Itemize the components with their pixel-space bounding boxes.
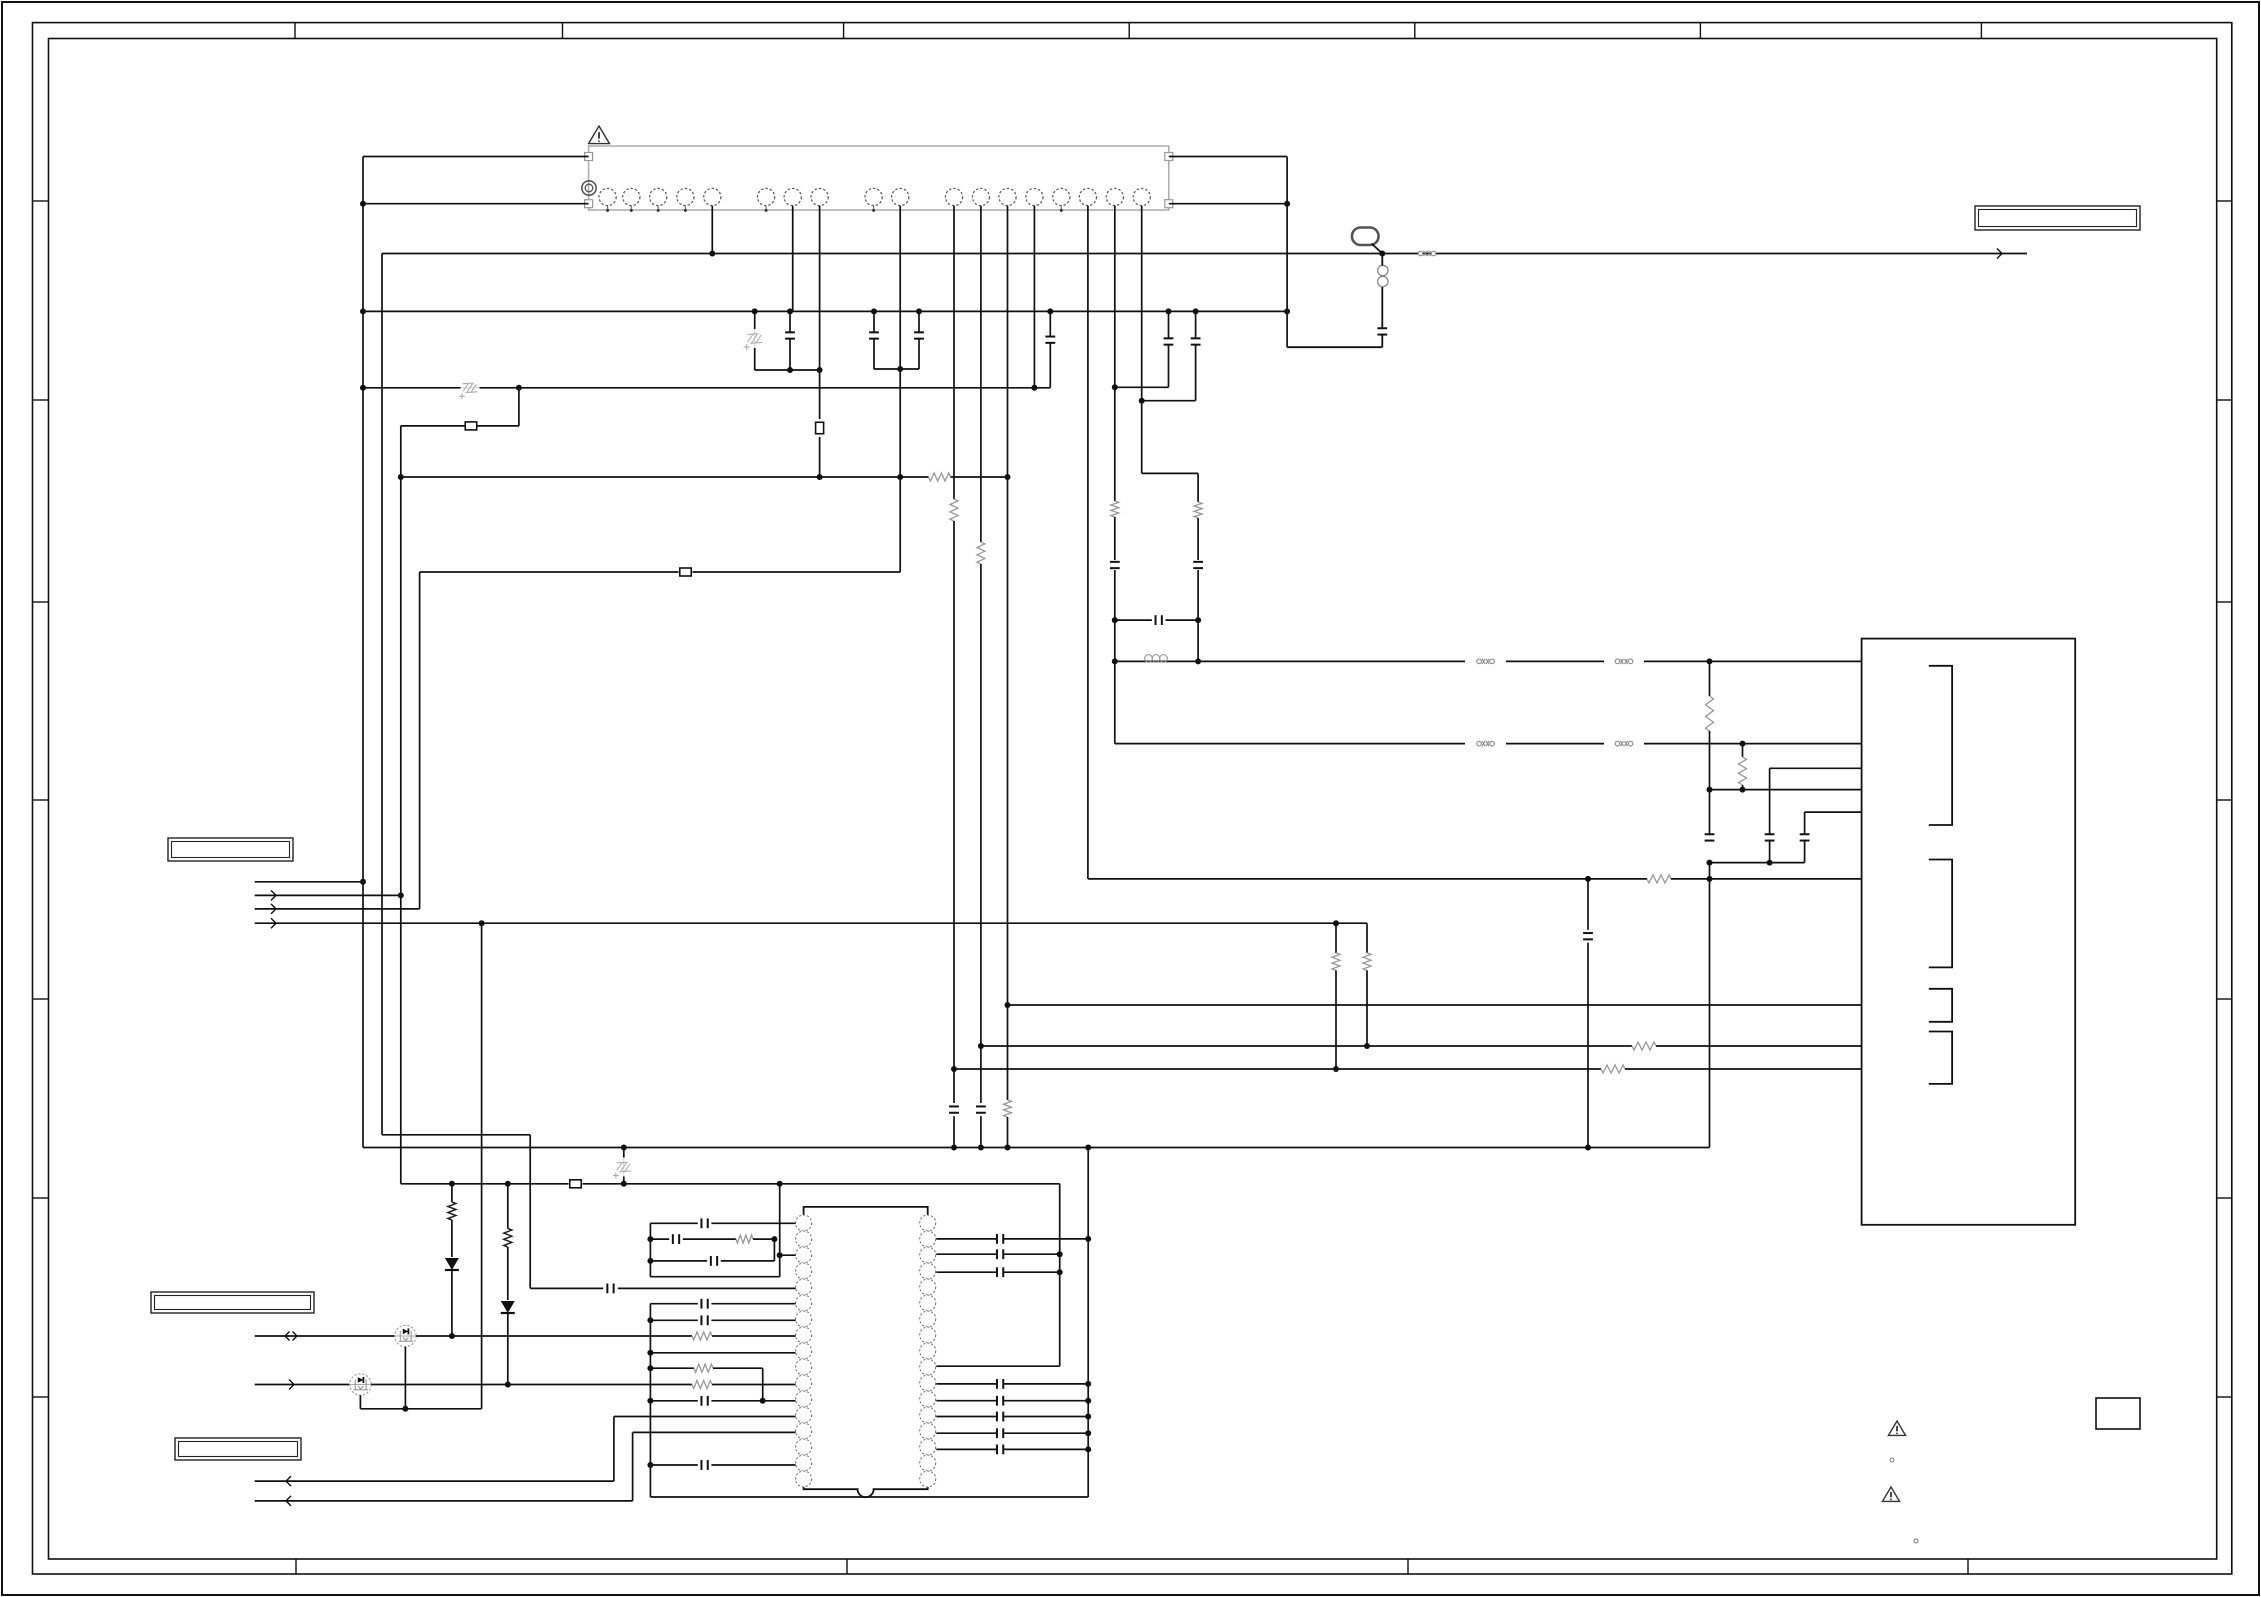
junction x650/pin7L row	[647, 1317, 653, 1323]
arrow W5	[286, 1476, 291, 1486]
resistor R10	[1332, 953, 1340, 971]
IC U1 pin 12 left	[796, 1391, 812, 1407]
junction right trunk/pad	[1284, 201, 1290, 207]
wire pin2R row b	[1004, 1238, 1088, 1240]
wire pin9L row	[650, 1352, 795, 1354]
wire C5 top lead	[1168, 311, 1170, 338]
wire M1 mid	[416, 1335, 692, 1337]
wire x774 vertical	[773, 1239, 775, 1261]
wire x1198 vertical a	[1197, 473, 1199, 502]
junction riser/pin15R	[1085, 1446, 1091, 1452]
capacitor C27	[997, 1267, 1003, 1277]
wire net W4	[255, 922, 1367, 924]
ferrite bead FB2a	[1477, 659, 1495, 664]
junction W-ANT1/x1198	[1195, 658, 1201, 664]
IC U1 pin 3 left	[796, 1247, 812, 1263]
junction busC/pin13 trunk	[1005, 474, 1011, 480]
wire W-block5	[1805, 811, 1862, 813]
wire R14 top lead	[451, 1184, 453, 1202]
wire pin13R row b	[1004, 1416, 1088, 1418]
junction busA right	[1284, 308, 1290, 314]
junction W6/C15 chain	[1585, 876, 1591, 882]
wire net5 to C23 left lead	[530, 1287, 603, 1289]
capacitor C23 on IC pin5 line	[607, 1284, 613, 1294]
IC U1 pin 12 right	[920, 1391, 936, 1407]
capacitor C20	[701, 1315, 707, 1325]
wire CN1 bottom-left pad to trunk	[363, 203, 589, 205]
wire R8 top lead	[1742, 744, 1744, 757]
wire ground riser x1088	[1087, 1148, 1089, 1498]
wire pin1L row a	[650, 1222, 697, 1224]
wire W-ANT1 left	[1115, 660, 1465, 662]
wire D2 to M2	[507, 1314, 509, 1385]
IC U1 pin 16 right	[920, 1455, 936, 1471]
wire long signal line L1	[382, 253, 2027, 255]
IC U1 pin 4 left	[796, 1263, 812, 1279]
module block U2 body	[1862, 639, 2076, 1225]
junction F/R11	[1364, 1043, 1370, 1049]
wire right trunk x1287	[1286, 157, 1288, 348]
wire CN1 top-right pad	[1169, 156, 1287, 158]
wire L1 junction to coil	[1381, 254, 1383, 266]
wire power bus A	[363, 310, 1287, 312]
wire pin4R row a	[936, 1271, 996, 1273]
wire net5 jog horizontal	[382, 1134, 530, 1136]
connector CN1 pin 8	[811, 188, 828, 205]
resistor R6 on x1198	[1194, 502, 1202, 518]
wire D right	[693, 571, 901, 573]
junction riser/pin13R	[1085, 1414, 1091, 1420]
arrow M2	[289, 1380, 294, 1390]
wire pin14L drop	[632, 1432, 634, 1501]
IC U1 pin 7 right	[920, 1311, 936, 1327]
module U2 internal bracket 3	[1929, 989, 1952, 1022]
wire R14-D1	[451, 1220, 453, 1257]
IC U1 pin 8 left	[796, 1327, 812, 1343]
wire coil to C23b	[1381, 287, 1383, 328]
wire pin4R row b	[1004, 1271, 1060, 1273]
junction return/pin8 trunk	[817, 367, 823, 373]
connector CN1 pin 17	[1106, 188, 1123, 205]
junction busA/C2	[871, 308, 877, 314]
connector CN1 pin 15	[1053, 188, 1070, 205]
junction busA/C3	[916, 308, 922, 314]
junction riser/pin14R	[1085, 1430, 1091, 1436]
capacitor C17	[673, 1234, 679, 1244]
junction W4/R10 chain	[1333, 920, 1339, 926]
IC U1 pin 9 right	[920, 1343, 936, 1359]
IC U1 pin 1 left	[796, 1215, 812, 1231]
wire CN1 pin10 drop	[899, 206, 901, 572]
IC U1 pin 11 left	[796, 1375, 812, 1391]
wire C12 bottom	[1769, 841, 1771, 862]
junction x1059/pin3R	[1057, 1251, 1063, 1257]
junction riser/pin12R	[1085, 1398, 1091, 1404]
wire bus I right	[583, 1183, 1060, 1185]
junction x1059/pin4R	[1057, 1269, 1063, 1275]
connector CN1 edge pad	[585, 153, 593, 161]
IC U1 pin 10 right	[920, 1359, 936, 1375]
IC U1 pin 17 left	[796, 1471, 812, 1487]
IC U1 pin 15 right	[920, 1439, 936, 1455]
junction busC/net3	[398, 474, 404, 480]
wire CN1 pin5 drop	[711, 206, 713, 254]
IC U1 pin 9 left	[796, 1343, 812, 1359]
module U2 internal bracket 2	[1929, 860, 1952, 968]
junction riser/pin11R	[1085, 1381, 1091, 1387]
wire G right	[1625, 1068, 1862, 1070]
jumper JP2 on pin8 drop	[816, 422, 824, 434]
diode D2	[501, 1301, 515, 1313]
junction H/pin12 trunk	[978, 1145, 984, 1151]
IC U1 pin 7 left	[796, 1311, 812, 1327]
inductor L2 coil	[1378, 265, 1388, 286]
wire pin14R row b	[1004, 1432, 1088, 1434]
ground symbol G2	[459, 383, 480, 399]
connector CN1 pin 15 stub	[1060, 206, 1062, 211]
junction I/x623	[621, 1181, 627, 1187]
junction H/pin13 trunk	[1005, 1145, 1011, 1151]
resistor R16	[736, 1235, 753, 1243]
wire CN1 pin17 trunk c	[1114, 570, 1116, 744]
wire arrow out W6b	[255, 1500, 633, 1502]
wire CN1 pin12 trunk c	[980, 1116, 982, 1147]
connector CN1 pin 16	[1079, 188, 1096, 205]
wire W-block4	[1710, 789, 1862, 791]
resistor R8	[1739, 757, 1747, 785]
capacitor C4	[1045, 337, 1055, 343]
wire trunk net1 vertical x363	[362, 157, 364, 1148]
wire CN1 pin11 trunk b	[953, 521, 955, 1103]
connector CN1 pin 4 stub	[684, 206, 686, 211]
wire pin3L stub	[780, 1254, 796, 1256]
capacitor C31	[997, 1428, 1003, 1438]
wire W6 right	[1671, 878, 1862, 880]
wire x1709 down to bus H	[1709, 879, 1711, 1148]
junction W-block4/R7	[1707, 787, 1713, 793]
wire R15-D2	[507, 1247, 509, 1300]
junction L1/pin5	[709, 251, 715, 257]
junction W-ANT1/R7 top	[1707, 658, 1713, 664]
wire CN1 pin11 trunk c	[953, 1116, 955, 1147]
wire C4 top lead	[1049, 311, 1051, 336]
wire C24 return horizontal	[1287, 346, 1382, 348]
wire block5 drop	[1804, 812, 1806, 833]
resistor R4 on pin13 trunk	[1004, 1100, 1012, 1117]
junction busA drop1	[752, 308, 758, 314]
junction M2/D2 chain	[505, 1382, 511, 1388]
wire net W3	[255, 908, 420, 910]
connector CN1 pin 1 stub	[607, 206, 609, 211]
capacitor C26	[997, 1249, 1003, 1259]
capacitor C14	[1705, 834, 1715, 840]
junction jog/pin18 trunk	[1139, 398, 1145, 404]
arrow M1 bidirectional	[285, 1332, 297, 1341]
junction busB drop	[516, 385, 522, 391]
wire pin12L row b	[711, 1400, 795, 1402]
IC U1 pin 14 right	[920, 1423, 936, 1439]
wire pin13L drop	[613, 1417, 615, 1482]
arrow W3	[271, 904, 276, 914]
wire pin13L row	[614, 1416, 796, 1418]
wire W-ANT1 right	[1644, 660, 1862, 662]
wire D left	[420, 571, 679, 573]
wire net5 vertical x530	[529, 1135, 531, 1289]
wire W-ANT2 left	[1115, 743, 1465, 745]
wire CN1 pin14 drop	[1033, 206, 1035, 388]
wire bus I down x1059	[1059, 1184, 1061, 1366]
wire C1 top lead	[789, 311, 791, 332]
wire C24 to corner	[1381, 335, 1383, 347]
junction net1/pad wire	[360, 201, 366, 207]
wire gate branch vertical x481	[481, 923, 483, 1409]
wire pin12R row b	[1004, 1400, 1088, 1402]
junction busA/C1	[787, 308, 793, 314]
resistor R13 in G	[1601, 1065, 1625, 1073]
wire pin14L row	[633, 1431, 796, 1433]
wire pin3R row a	[936, 1253, 996, 1255]
wire pin6L row a	[650, 1303, 697, 1305]
wire W-ANT2 mid	[1506, 743, 1604, 745]
junction x779/pin3L stub	[777, 1252, 783, 1258]
ground symbol G3	[613, 1158, 632, 1179]
junction G/R10	[1333, 1066, 1339, 1072]
wire pin13R row a	[936, 1416, 996, 1418]
connector CN1 pin 18	[1133, 188, 1150, 205]
connector CN1 pin 2 stub	[630, 206, 632, 211]
capacitor C19	[701, 1299, 707, 1309]
wire cap C5 jog	[1115, 386, 1169, 388]
wire C2 bottom lead	[873, 339, 875, 369]
resistor R14	[448, 1202, 456, 1220]
wire C1 bottom lead	[789, 339, 791, 370]
capacitor C18	[711, 1256, 717, 1266]
junction x650/pin3L row	[647, 1258, 653, 1264]
ferrite bead FB3	[1615, 741, 1633, 746]
wire CN1 pin12 trunk a	[980, 206, 982, 542]
wire E (pin13 to block)	[1008, 1004, 1862, 1006]
junction busA/C4	[1047, 308, 1053, 314]
wire Q2 source drop	[359, 1395, 361, 1409]
capacitor C32	[997, 1445, 1003, 1455]
wire pin10L row a	[650, 1367, 694, 1369]
wire pin2R row a	[936, 1238, 996, 1240]
connector CN1 pin 12	[972, 188, 989, 205]
wire trunk net5 vertical x382	[381, 254, 383, 1135]
junction jog/pin17 trunk	[1112, 384, 1118, 390]
warning triangle above CN1	[589, 126, 610, 144]
resistor R2 on pin11 trunk	[950, 499, 958, 521]
wire bus C left	[401, 476, 929, 478]
junction H/ground riser	[1085, 1145, 1091, 1151]
wire pin7L row b	[711, 1319, 795, 1321]
junction busA/C6	[1193, 308, 1199, 314]
resistor R11	[1363, 953, 1371, 971]
capacitor C15	[1583, 933, 1593, 939]
off-page arrow L1	[1997, 249, 2002, 259]
wire busB drop vertical	[518, 388, 520, 426]
junction H drop x623	[621, 1145, 627, 1151]
wire W6 (pin16 to block)	[1088, 878, 1647, 880]
wire pin7L row a	[650, 1319, 697, 1321]
wire D1 to M1	[451, 1271, 453, 1336]
connector CN1 pin 2	[623, 188, 640, 205]
junction M1/D1 chain	[449, 1333, 455, 1339]
wire C4 bottom lead	[1049, 343, 1051, 388]
IC U1 pin 4 right	[920, 1263, 936, 1279]
inductor FB1a coil on W-ANT1	[1145, 655, 1168, 663]
junction H/pin11 trunk	[951, 1145, 957, 1151]
wire C2-C3 return	[874, 368, 919, 370]
wire R10 top lead	[1335, 923, 1337, 953]
wire ground bus H	[363, 1147, 1709, 1149]
connector CN1 pin 5	[704, 188, 721, 205]
label box left-2	[151, 1292, 314, 1313]
junction x650/pin12L row	[647, 1398, 653, 1404]
junction W-ANT2/R8 top	[1740, 741, 1746, 747]
wire cluster bottom row	[650, 1276, 779, 1278]
connector CN1 pin 3	[650, 188, 667, 205]
wire H to I drop	[623, 1148, 625, 1184]
wire bus I left	[401, 1183, 569, 1185]
junction G/pin11 trunk	[951, 1066, 957, 1072]
jumper JP1	[465, 422, 477, 430]
junction W2/net3	[398, 892, 404, 898]
capacitor C5	[1164, 338, 1174, 344]
wire CN1 pin17 trunk a	[1114, 206, 1116, 501]
junction return/pin10 trunk	[897, 366, 903, 372]
connector CN1 pin 13	[999, 188, 1016, 205]
junction caps return a	[1707, 860, 1713, 866]
junction x650/pin10L row	[647, 1365, 653, 1371]
wire cluster vertical x650 upper	[649, 1223, 651, 1276]
junction busC/pin8	[817, 474, 823, 480]
wire CN1 pin8 drop lower	[819, 437, 821, 477]
junction crosslink left	[1112, 617, 1118, 623]
capacitor C25	[997, 1234, 1003, 1244]
junction C1 return	[787, 367, 793, 373]
wire crosslink cap right	[1166, 619, 1199, 621]
wire C6 top lead	[1195, 311, 1197, 338]
wire C15 top lead	[1587, 879, 1589, 930]
wire x1198 vertical c	[1197, 570, 1199, 661]
arrow W2	[271, 890, 276, 900]
module U2 internal bracket 1	[1929, 666, 1952, 825]
IC U1 pin 15 left	[796, 1439, 812, 1455]
junction I/R15 chain	[505, 1181, 511, 1187]
capacitor C9 on pin17 trunk	[1110, 562, 1120, 568]
resistor R18 in M1	[692, 1332, 712, 1340]
wire C3 top lead	[918, 311, 920, 332]
IC U1 pin 5 left	[796, 1279, 812, 1295]
junction x650/pin16L row	[647, 1462, 653, 1468]
connector CN1 pin 3 stub	[657, 206, 659, 211]
junction crosslink right	[1195, 617, 1201, 623]
wire R8 bottom	[1742, 785, 1744, 790]
connector CN1 pin 6	[758, 188, 775, 205]
warning triangle note 1	[1888, 1421, 1905, 1435]
arrow W6b	[286, 1496, 291, 1506]
junction busC/pin10	[897, 474, 903, 480]
connector CN1 edge pad	[1165, 200, 1173, 208]
wire R15 top lead	[507, 1184, 509, 1229]
connector CN1 pin 9 stub	[873, 206, 875, 211]
wire pin3L row b	[721, 1260, 775, 1262]
connector CN1 edge pad	[585, 200, 593, 208]
junction busB/net1	[360, 385, 366, 391]
transistor Q2	[350, 1374, 371, 1395]
junction pin2L/x774	[771, 1236, 777, 1242]
capacitor C10 on x1198	[1193, 562, 1203, 568]
wire arrow out W5	[255, 1480, 614, 1482]
wire pin10L row b	[713, 1367, 763, 1369]
capacitor C2	[869, 332, 879, 338]
wire drop to jumper	[401, 425, 519, 427]
connector CN1 body	[589, 146, 1169, 210]
wire bus I to IC pin10 right	[936, 1365, 1059, 1367]
wire pin1L row b	[711, 1222, 795, 1224]
jumper JP3	[680, 568, 692, 576]
wire R11 top lead	[1366, 923, 1368, 953]
junction W1/net1	[360, 879, 366, 885]
note dot 1	[1890, 1458, 1894, 1462]
wire M2 mid	[371, 1384, 692, 1386]
connector CN1 pin 14	[1026, 188, 1043, 205]
wire pin3L row a	[650, 1260, 707, 1262]
wire block3 drop	[1769, 768, 1771, 833]
wire pin12R row a	[936, 1400, 996, 1402]
IC U1 pin 5 right	[920, 1279, 936, 1295]
wire CN1 pin11 trunk a	[953, 206, 955, 499]
wire pin6L row b	[711, 1303, 795, 1305]
resistor R19 in M2	[692, 1381, 712, 1389]
IC U1 pin 6 right	[920, 1295, 936, 1311]
wire C14 top lead	[1709, 790, 1711, 834]
arrow W4	[271, 918, 276, 928]
capacitor C21	[701, 1396, 707, 1406]
wire CN1 pin7 drop	[792, 206, 794, 312]
wire CN1 pin16 trunk	[1087, 206, 1089, 879]
resistor R12 in F	[1632, 1042, 1656, 1050]
capacitor C12	[1765, 834, 1775, 840]
wire C5 bottom lead	[1168, 345, 1170, 387]
capacitor C29	[997, 1396, 1003, 1406]
IC U1 pin 17 right	[920, 1471, 936, 1487]
junction busA/net1	[360, 308, 366, 314]
wire R11 bottom lead	[1366, 970, 1368, 1046]
IC U1 pin 8 right	[920, 1327, 936, 1343]
diode D1	[445, 1258, 459, 1270]
capacitor C11 crosslink	[1156, 615, 1162, 625]
resistor R1 in bus C	[929, 473, 951, 481]
IC U1 pin 2 right	[920, 1231, 936, 1247]
wire pin16L row b	[711, 1464, 795, 1466]
label box top-right	[1975, 206, 2140, 230]
junction x650/pin9L row	[647, 1350, 653, 1356]
capacitor C13	[1800, 834, 1810, 840]
wire caps return bus	[1710, 862, 1805, 864]
junction I/x779	[777, 1181, 783, 1187]
small box bottom-right	[2096, 1398, 2140, 1429]
connector CN1 pin 10	[892, 188, 909, 205]
capacitor C28	[997, 1379, 1003, 1389]
wire pin2L row c	[753, 1238, 774, 1240]
wire M2 left	[255, 1384, 350, 1386]
resistor R7	[1706, 696, 1714, 731]
connector CN1 pin 6 stub	[765, 206, 767, 211]
wire pin16L row a	[650, 1464, 697, 1466]
wire pin15R row a	[936, 1448, 996, 1450]
